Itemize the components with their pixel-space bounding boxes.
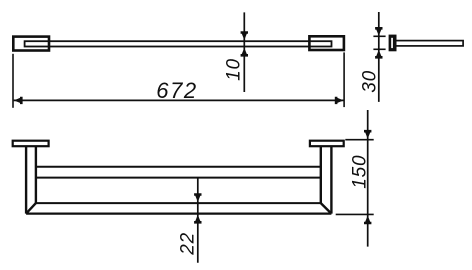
plate inner slot [391,38,393,48]
arrow 30 top (down) [375,27,382,36]
right wall bracket (plan) [309,36,344,50]
bar (side view) [394,41,464,46]
extension tick bottom (30) [373,48,385,50]
extension line bottom (150) [336,213,374,215]
dimension line 150 [367,110,369,247]
svg-text:10: 10 [223,58,244,81]
towel bar tube (plan view) [25,41,332,46]
dimension line 30 [378,12,380,102]
right post outer line [330,146,332,213]
dimension line 10 (vertical through bar) [243,12,245,92]
extension line top (150) [345,139,373,141]
extension tick top (30) [373,35,385,37]
outer bottom line [26,213,331,215]
left wall bracket (plan) [13,37,49,51]
arrow 30 bottom (up) [375,50,382,59]
arrow 22 top (down) [194,193,201,202]
svg-text:150: 150 [349,155,370,189]
wall plate (side view, solid) [389,35,397,52]
arrow 672 right [335,97,344,104]
left post outer line [25,146,27,213]
left post inner line [35,146,37,203]
dimension line 22 [197,178,199,263]
arrow 672 left [14,97,23,104]
arrow 150 top (down) [364,130,371,139]
right corner diagonal [321,203,332,214]
arrow 10 top (down) [241,31,248,40]
svg-text:672: 672 [156,78,198,103]
left flange [13,141,49,147]
right flange [310,141,344,147]
arrow 10 bottom (up) [241,48,248,57]
left corner diagonal [26,203,36,214]
extension line right (672) [343,52,345,107]
arrow 150 bottom (up) [364,216,371,225]
arrow 22 bottom (up) [194,215,201,224]
right post inner line [320,146,322,203]
svg-text:22: 22 [178,232,199,256]
dimension line 672 [14,99,344,101]
inner bottom line [36,202,321,204]
svg-text:30: 30 [360,70,381,93]
rail bottom line [36,177,321,179]
extension line left (672) [12,54,14,108]
rail top line [36,166,321,168]
